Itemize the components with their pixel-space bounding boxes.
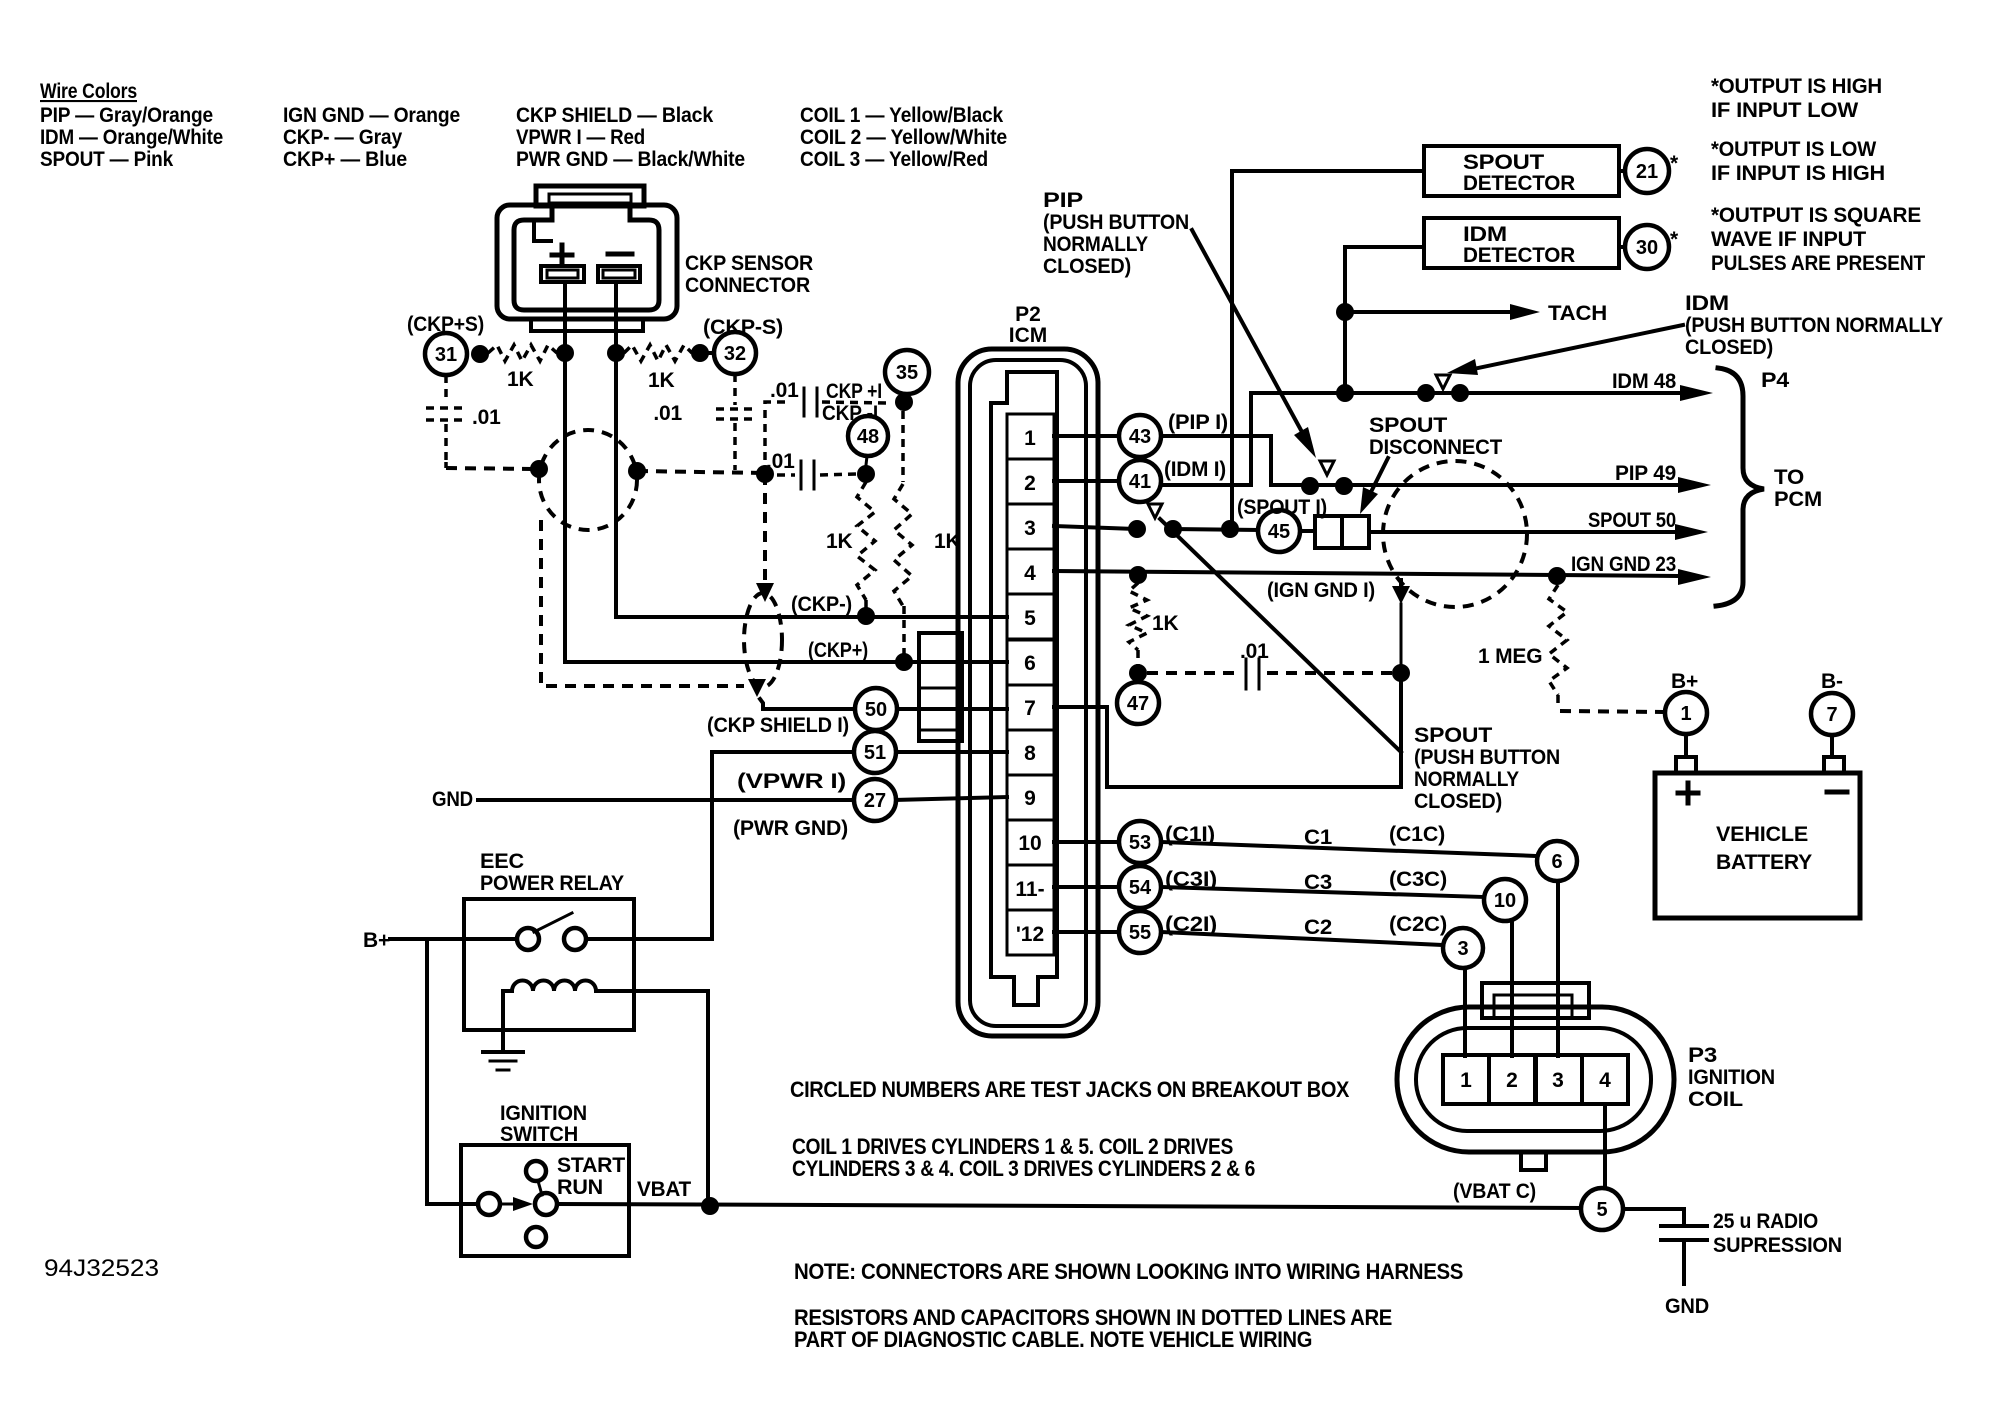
test jack 35 — [885, 350, 929, 394]
wire coil pin4 to jack 5 — [1603, 1104, 1607, 1189]
svg-text:SPOUT — Pink: SPOUT — Pink — [40, 148, 173, 171]
wire pin5 CKP- to sensor — [616, 282, 1007, 617]
svg-text:4: 4 — [1599, 1069, 1611, 1092]
junction node CKP-I — [857, 465, 875, 483]
svg-text:SUPRESSION: SUPRESSION — [1713, 1234, 1842, 1257]
junction dots resistor R31 — [471, 345, 489, 363]
battery - symbol — [1827, 790, 1847, 795]
svg-text:(PWR GND): (PWR GND) — [733, 817, 848, 840]
wire relay coil left to ground — [503, 991, 512, 1050]
test jack 54 C3I — [1119, 866, 1161, 908]
relay switch blade — [534, 913, 572, 932]
svg-text:GND: GND — [432, 788, 473, 811]
wire pin9 PWR GND — [896, 797, 1007, 800]
svg-text:2: 2 — [1024, 472, 1036, 495]
capacitor .01 on jack47 row — [1147, 671, 1238, 675]
wire IDM jog up to IDM 48 row — [1161, 393, 1345, 485]
svg-text:1: 1 — [1460, 1069, 1472, 1092]
test jack 50 CKP SHIELD I — [855, 688, 897, 730]
svg-text:1K: 1K — [826, 530, 852, 553]
node CKP+I dashed row — [765, 402, 790, 474]
shield arrowhead bottom — [748, 679, 766, 697]
svg-text:PIP: PIP — [1043, 189, 1083, 212]
svg-text:TACH: TACH — [1548, 302, 1607, 325]
svg-text:7: 7 — [1024, 697, 1036, 720]
svg-text:IF INPUT LOW: IF INPUT LOW — [1711, 99, 1858, 122]
svg-text:COIL 2 — Yellow/White: COIL 2 — Yellow/White — [800, 126, 1007, 149]
svg-text:COIL: COIL — [1688, 1088, 1743, 1111]
wire pin1 PIP — [1054, 434, 1119, 438]
svg-text:.01: .01 — [653, 402, 682, 425]
svg-text:94J32523: 94J32523 — [44, 1255, 159, 1282]
svg-text:CLOSED): CLOSED) — [1685, 336, 1773, 359]
ignition switch wiper link — [538, 1181, 542, 1195]
svg-text:6: 6 — [1551, 851, 1562, 873]
svg-text:CKP SENSOR: CKP SENSOR — [685, 252, 813, 275]
svg-text:(CKP+): (CKP+) — [808, 639, 868, 662]
push button SPOUT normally closed — [1148, 504, 1162, 518]
svg-text:CIRCLED NUMBERS ARE TEST JACKS: CIRCLED NUMBERS ARE TEST JACKS ON BREAKO… — [790, 1077, 1350, 1102]
svg-text:(C1C): (C1C) — [1389, 823, 1445, 846]
test jack 53 C1I — [1119, 821, 1161, 863]
arrow IGN GND 23 to PCM — [1678, 569, 1711, 585]
svg-text:.01: .01 — [766, 450, 795, 473]
svg-text:IDM: IDM — [1685, 292, 1729, 315]
IDM detector box — [1424, 218, 1619, 268]
svg-text:47: 47 — [1127, 693, 1149, 715]
CKP - terminal — [598, 266, 640, 282]
svg-text:PART OF DIAGNOSTIC CABLE. NOTE: PART OF DIAGNOSTIC CABLE. NOTE VEHICLE W… — [794, 1327, 1312, 1352]
svg-text:TO: TO — [1774, 466, 1804, 489]
test jack 45 SPOUT I — [1258, 510, 1300, 552]
svg-text:EEC: EEC — [480, 850, 524, 873]
junction shield right — [628, 462, 646, 480]
wire coil jack 3 down to pin1 — [1463, 968, 1467, 1056]
svg-text:DETECTOR: DETECTOR — [1463, 172, 1575, 195]
shield arrowhead top of pin ellipse — [756, 583, 774, 602]
SPOUT detector box — [1424, 146, 1619, 196]
P3 connector top tab — [1482, 983, 1589, 1018]
svg-text:(PUSH BUTTON: (PUSH BUTTON — [1414, 746, 1560, 769]
push button PIP normally closed — [1320, 461, 1334, 475]
svg-text:(IGN GND I): (IGN GND I) — [1267, 579, 1375, 602]
leader arrow PIP label to contact — [1192, 230, 1302, 432]
svg-text:2: 2 — [1506, 1069, 1518, 1092]
relay K1 box — [464, 899, 634, 1030]
junction CKP+ 1K — [895, 653, 913, 671]
svg-text:PIP 49: PIP 49 — [1615, 462, 1676, 485]
battery terminal positive — [1676, 757, 1696, 773]
test jack 55 C2I — [1119, 911, 1161, 953]
leader SPOUT label to contact — [1160, 519, 1401, 752]
wire pin11 C3 — [1054, 885, 1119, 889]
test jack 30 — [1619, 245, 1626, 249]
svg-text:CKP SHIELD — Black: CKP SHIELD — Black — [516, 104, 713, 127]
svg-text:B-: B- — [1821, 670, 1843, 693]
wire B+ to relay switch — [390, 937, 517, 941]
svg-text:NOTE: CONNECTORS ARE SHOWN LOO: NOTE: CONNECTORS ARE SHOWN LOOKING INTO … — [794, 1259, 1463, 1284]
leader arrow IDM label to contact — [1478, 325, 1683, 368]
node CKP-I dashed row — [777, 473, 795, 477]
svg-text:5: 5 — [1024, 607, 1036, 630]
svg-text:1K: 1K — [507, 368, 533, 391]
wire pin10 C1 — [1054, 840, 1119, 844]
wire pin12 C2 — [1054, 930, 1119, 934]
shield ellipse at P2 pins — [744, 593, 782, 687]
svg-text:NORMALLY: NORMALLY — [1043, 233, 1148, 256]
shield ellipse around PCM wires — [1383, 461, 1527, 607]
resistor 1 MEG (dashed) — [1549, 585, 1567, 695]
svg-text:WAVE IF INPUT: WAVE IF INPUT — [1711, 228, 1866, 251]
test jack 43 PIP I — [1119, 415, 1161, 457]
svg-text:COIL 1 — Yellow/Black: COIL 1 — Yellow/Black — [800, 104, 1003, 127]
CKP connector bottom tab — [531, 319, 643, 331]
wire PIP jog down to PIP 49 row — [1161, 436, 1271, 485]
svg-text:START: START — [557, 1154, 625, 1177]
junction PIP push button contacts — [1301, 477, 1319, 495]
svg-text:DETECTOR: DETECTOR — [1463, 244, 1575, 267]
P3 pin boxes — [1443, 1055, 1489, 1104]
svg-text:(PUSH BUTTON: (PUSH BUTTON — [1043, 211, 1189, 234]
svg-text:IDM 48: IDM 48 — [1612, 370, 1676, 393]
svg-text:(VBAT C): (VBAT C) — [1453, 1180, 1536, 1203]
wire PIP 49 row — [1271, 483, 1676, 487]
capacitor 25u radio suppression — [1661, 1224, 1707, 1228]
svg-text:53: 53 — [1129, 832, 1151, 854]
svg-text:1 MEG: 1 MEG — [1478, 645, 1542, 668]
svg-text:9: 9 — [1024, 787, 1036, 810]
shield net dashed wire left — [444, 462, 448, 468]
svg-text:IGN GND 23: IGN GND 23 — [1571, 553, 1676, 576]
junction IDM detector to IDM 48 — [1336, 384, 1354, 402]
coil test jack 5 — [1581, 1188, 1623, 1230]
svg-text:1K: 1K — [648, 369, 674, 392]
wire pin6 CKP+ to sensor — [565, 282, 1007, 662]
svg-text:IGN GND — Orange: IGN GND — Orange — [283, 104, 460, 127]
svg-text:(IDM I): (IDM I) — [1164, 458, 1226, 481]
svg-text:(CKP SHIELD I): (CKP SHIELD I) — [707, 714, 849, 737]
junction node CKP+I — [895, 393, 913, 411]
svg-text:.01: .01 — [1240, 640, 1269, 663]
shield drain from PCM cable ellipse — [1399, 578, 1403, 588]
ignition switch contact circles — [478, 1193, 500, 1215]
svg-text:(VPWR I): (VPWR I) — [737, 770, 846, 793]
svg-text:COIL 3 — Yellow/Red: COIL 3 — Yellow/Red — [800, 148, 988, 171]
svg-text:P2: P2 — [1015, 303, 1041, 326]
brace P4 to PCM — [1716, 368, 1764, 606]
test jack 41 IDM I — [1119, 460, 1161, 502]
svg-text:Wire Colors: Wire Colors — [40, 80, 137, 103]
svg-text:48: 48 — [857, 426, 879, 448]
svg-text:7: 7 — [1826, 704, 1837, 726]
svg-text:43: 43 — [1129, 426, 1151, 448]
svg-text:CLOSED): CLOSED) — [1043, 255, 1131, 278]
P3 ignition coil connector ovals — [1397, 1007, 1674, 1152]
svg-text:'12: '12 — [1016, 923, 1044, 946]
wire SPOUT detector to SPOUT line — [1232, 171, 1424, 529]
svg-text:CYLINDERS 3 & 4. COIL 3 DRIVES: CYLINDERS 3 & 4. COIL 3 DRIVES CYLINDERS… — [792, 1156, 1255, 1181]
test jack 48 — [848, 416, 888, 456]
svg-text:35: 35 — [896, 362, 918, 384]
wire SPOUT to jack 45 — [1173, 529, 1258, 530]
svg-text:SPOUT: SPOUT — [1369, 414, 1447, 437]
push button IDM normally closed — [1436, 375, 1450, 389]
svg-text:10: 10 — [1018, 832, 1041, 855]
svg-text:6: 6 — [1024, 652, 1036, 675]
CKP + terminal — [541, 266, 584, 282]
test jack 31 — [425, 333, 467, 375]
svg-text:3: 3 — [1457, 938, 1468, 960]
ignition switch box — [461, 1145, 629, 1256]
wire VBAT bus — [557, 1204, 1581, 1208]
svg-text:B+: B+ — [1671, 670, 1698, 693]
wire C2 to coil jack 3 — [1161, 932, 1443, 945]
svg-text:SWITCH: SWITCH — [500, 1123, 578, 1146]
svg-text:C2: C2 — [1304, 916, 1332, 939]
wire B+ down to ignition switch — [427, 939, 478, 1204]
svg-text:ICM: ICM — [1009, 324, 1048, 347]
wire pin4 IGN GND — [1054, 571, 1676, 576]
wire pin3 SPOUT — [1054, 526, 1137, 529]
ground symbol relay coil — [483, 1050, 523, 1054]
wire GND to jack 27 — [478, 798, 854, 802]
wire pin2 IDM — [1054, 479, 1119, 483]
svg-text:51: 51 — [864, 742, 886, 764]
svg-text:25 u RADIO: 25 u RADIO — [1713, 1210, 1818, 1233]
svg-text:DISCONNECT: DISCONNECT — [1369, 436, 1502, 459]
svg-text:4: 4 — [1024, 562, 1036, 585]
svg-text:SPOUT: SPOUT — [1414, 724, 1492, 747]
svg-text:(C3C): (C3C) — [1389, 868, 1447, 891]
svg-text:RUN: RUN — [557, 1176, 603, 1199]
capacitor .01 below jack 32 — [733, 374, 737, 405]
resistor 1K CKP- (dashed) — [857, 482, 875, 600]
wire coil jack 10 down to pin2 — [1510, 921, 1514, 1056]
svg-text:CLOSED): CLOSED) — [1414, 790, 1502, 813]
wire TACH with arrow — [1345, 310, 1512, 314]
svg-text:C3: C3 — [1304, 871, 1332, 894]
junction VBAT — [701, 1197, 719, 1215]
CKP sensor connector body — [536, 186, 644, 206]
svg-text:1: 1 — [1024, 427, 1036, 450]
test jack 32 — [700, 351, 714, 355]
svg-text:3: 3 — [1552, 1069, 1564, 1092]
junction jack 47 node — [1129, 664, 1147, 682]
svg-text:GND: GND — [1665, 1295, 1709, 1318]
svg-text:3: 3 — [1024, 517, 1036, 540]
resistor 1K to jack 32 — [624, 345, 692, 361]
svg-text:PULSES ARE PRESENT: PULSES ARE PRESENT — [1711, 252, 1925, 275]
P3 bottom tab — [1521, 1152, 1546, 1170]
svg-text:5: 5 — [1596, 1199, 1607, 1221]
P2 pin boxes 1-12 — [1007, 414, 1054, 459]
svg-text:(C2C): (C2C) — [1389, 913, 1447, 936]
wire 1 MEG to jack B+ — [1560, 711, 1663, 712]
arrow SPOUT 50 to PCM — [1675, 524, 1708, 540]
junction dots resistor R32 — [607, 344, 625, 362]
wire pin8 VPWR — [896, 750, 1007, 754]
svg-text:IGNITION: IGNITION — [1688, 1066, 1775, 1089]
junction 1 MEG — [1548, 567, 1566, 585]
capacitor .01 below jack 31 — [444, 375, 448, 402]
svg-text:31: 31 — [435, 344, 457, 366]
svg-text:.01: .01 — [770, 379, 799, 402]
junction 1K pulldown — [1129, 566, 1147, 584]
coil test jack 6 — [1537, 841, 1577, 881]
svg-text:B+: B+ — [363, 929, 390, 952]
svg-text:VPWR I — Red: VPWR I — Red — [516, 126, 645, 149]
wire IDM detector vertical — [1345, 247, 1424, 393]
leader arrow to disconnect — [1371, 458, 1388, 492]
wire relay switch to VPWR — [586, 937, 712, 941]
test jack 47 — [1117, 682, 1159, 724]
svg-text:VBAT: VBAT — [637, 1178, 691, 1201]
svg-text:(CKP-): (CKP-) — [791, 593, 852, 616]
resistor 1K to jack 47 (dashed) — [1129, 583, 1147, 650]
svg-text:IDM — Orange/White: IDM — Orange/White — [40, 126, 223, 149]
svg-text:45: 45 — [1268, 521, 1290, 543]
svg-text:CKP +I: CKP +I — [826, 380, 882, 403]
wire SPOUT 50 row to PCM — [1369, 530, 1675, 534]
svg-text:NORMALLY: NORMALLY — [1414, 768, 1519, 791]
shield dashed drain right side — [763, 474, 767, 585]
svg-text:(PUSH BUTTON NORMALLY: (PUSH BUTTON NORMALLY — [1685, 314, 1943, 337]
svg-text:.01: .01 — [472, 406, 501, 429]
wire C3 to coil jack 10 — [1161, 887, 1484, 897]
battery + symbol — [1686, 783, 1691, 803]
svg-text:8: 8 — [1024, 742, 1036, 765]
svg-text:10: 10 — [1494, 890, 1516, 912]
svg-text:54: 54 — [1129, 877, 1152, 899]
junction shield node right — [1392, 664, 1410, 682]
test jack 51 VPWR I — [854, 731, 896, 773]
wire jack 50 to P2 pin 7 — [897, 707, 1007, 711]
svg-text:P3: P3 — [1688, 1044, 1717, 1067]
wire relay coil to VBAT — [596, 991, 708, 1206]
wire shield to jack 50 — [760, 699, 855, 709]
wire IDM 48 row to PCM — [1345, 391, 1678, 395]
svg-text:C1: C1 — [1304, 826, 1333, 849]
svg-text:*OUTPUT IS LOW: *OUTPUT IS LOW — [1711, 138, 1876, 161]
battery terminal negative — [1824, 757, 1844, 773]
svg-text:VEHICLE: VEHICLE — [1716, 823, 1808, 846]
test jack 7 battery negative — [1811, 693, 1853, 735]
svg-text:30: 30 — [1636, 237, 1658, 259]
wire jack 5 to suppression capacitor — [1623, 1209, 1684, 1222]
svg-text:1: 1 — [1680, 703, 1691, 725]
arrow PIP 49 to PCM — [1678, 477, 1711, 493]
junction IDM push button contacts — [1417, 384, 1435, 402]
svg-text:PIP — Gray/Orange: PIP — Gray/Orange — [40, 104, 213, 127]
shield net dashed wire to diag cable — [637, 471, 763, 473]
test jack 1 battery positive — [1665, 692, 1707, 734]
resistor 1K to jack 31 — [488, 345, 557, 361]
connector P2 left key — [919, 633, 962, 741]
svg-text:CKP- — Gray: CKP- — Gray — [283, 126, 402, 149]
shield ellipse at CKP connector wires — [539, 430, 637, 530]
ignition switch arrow — [500, 1203, 520, 1206]
resistor 1K CKP+ (dashed) — [901, 411, 905, 482]
svg-text:P4: P4 — [1761, 369, 1790, 392]
svg-text:1K: 1K — [1152, 612, 1178, 635]
svg-text:CONNECTOR: CONNECTOR — [685, 274, 810, 297]
junction SPOUT push button contacts — [1128, 520, 1146, 538]
test jack 27 PWR GND — [854, 779, 896, 821]
junction CKP- 1K — [857, 607, 875, 625]
relay coil L1 — [512, 981, 596, 992]
svg-text:21: 21 — [1636, 161, 1658, 183]
svg-text:IGNITION: IGNITION — [500, 1102, 587, 1125]
junction SPOUT detector tap — [1221, 520, 1239, 538]
svg-text:*: * — [1670, 228, 1679, 251]
SPOUT disconnect connector blocks — [1300, 529, 1315, 533]
svg-text:41: 41 — [1129, 471, 1151, 493]
test jack 21 — [1619, 169, 1626, 173]
svg-text:(PIP I): (PIP I) — [1168, 411, 1228, 434]
wire C1 to coil jack 6 — [1161, 842, 1537, 856]
arrow IDM 48 to PCM — [1680, 385, 1713, 401]
junction shield left — [530, 460, 548, 478]
svg-text:SPOUT: SPOUT — [1463, 151, 1544, 174]
wire coil jack 6 down to pin3 — [1556, 882, 1560, 1056]
relay switch contacts — [517, 928, 539, 950]
svg-text:IF INPUT IS HIGH: IF INPUT IS HIGH — [1711, 162, 1885, 185]
svg-text:11-: 11- — [1015, 878, 1044, 901]
svg-text:PCM: PCM — [1774, 488, 1822, 511]
svg-text:POWER RELAY: POWER RELAY — [480, 872, 624, 895]
wire VPWR to EEC relay — [712, 752, 854, 939]
svg-text:*: * — [1670, 152, 1679, 175]
junction TACH — [1336, 303, 1354, 321]
svg-text:IDM: IDM — [1463, 223, 1507, 246]
svg-text:27: 27 — [864, 790, 886, 812]
svg-text:32: 32 — [724, 343, 746, 365]
svg-text:BATTERY: BATTERY — [1716, 851, 1812, 874]
battery box — [1655, 773, 1860, 918]
wire pin7 shield loop to drain node — [1054, 675, 1401, 787]
svg-text:50: 50 — [865, 699, 887, 721]
svg-text:PWR GND — Black/White: PWR GND — Black/White — [516, 148, 745, 171]
shield dashed path from connector side — [541, 520, 744, 686]
coil test jack 10 — [1484, 879, 1526, 921]
svg-text:55: 55 — [1129, 922, 1151, 944]
coil test jack 3 — [1443, 928, 1483, 968]
svg-text:*OUTPUT IS SQUARE: *OUTPUT IS SQUARE — [1711, 204, 1921, 227]
svg-text:*OUTPUT IS HIGH: *OUTPUT IS HIGH — [1711, 75, 1882, 98]
svg-text:SPOUT 50: SPOUT 50 — [1588, 509, 1676, 532]
svg-text:CKP+ — Blue: CKP+ — Blue — [283, 148, 407, 171]
